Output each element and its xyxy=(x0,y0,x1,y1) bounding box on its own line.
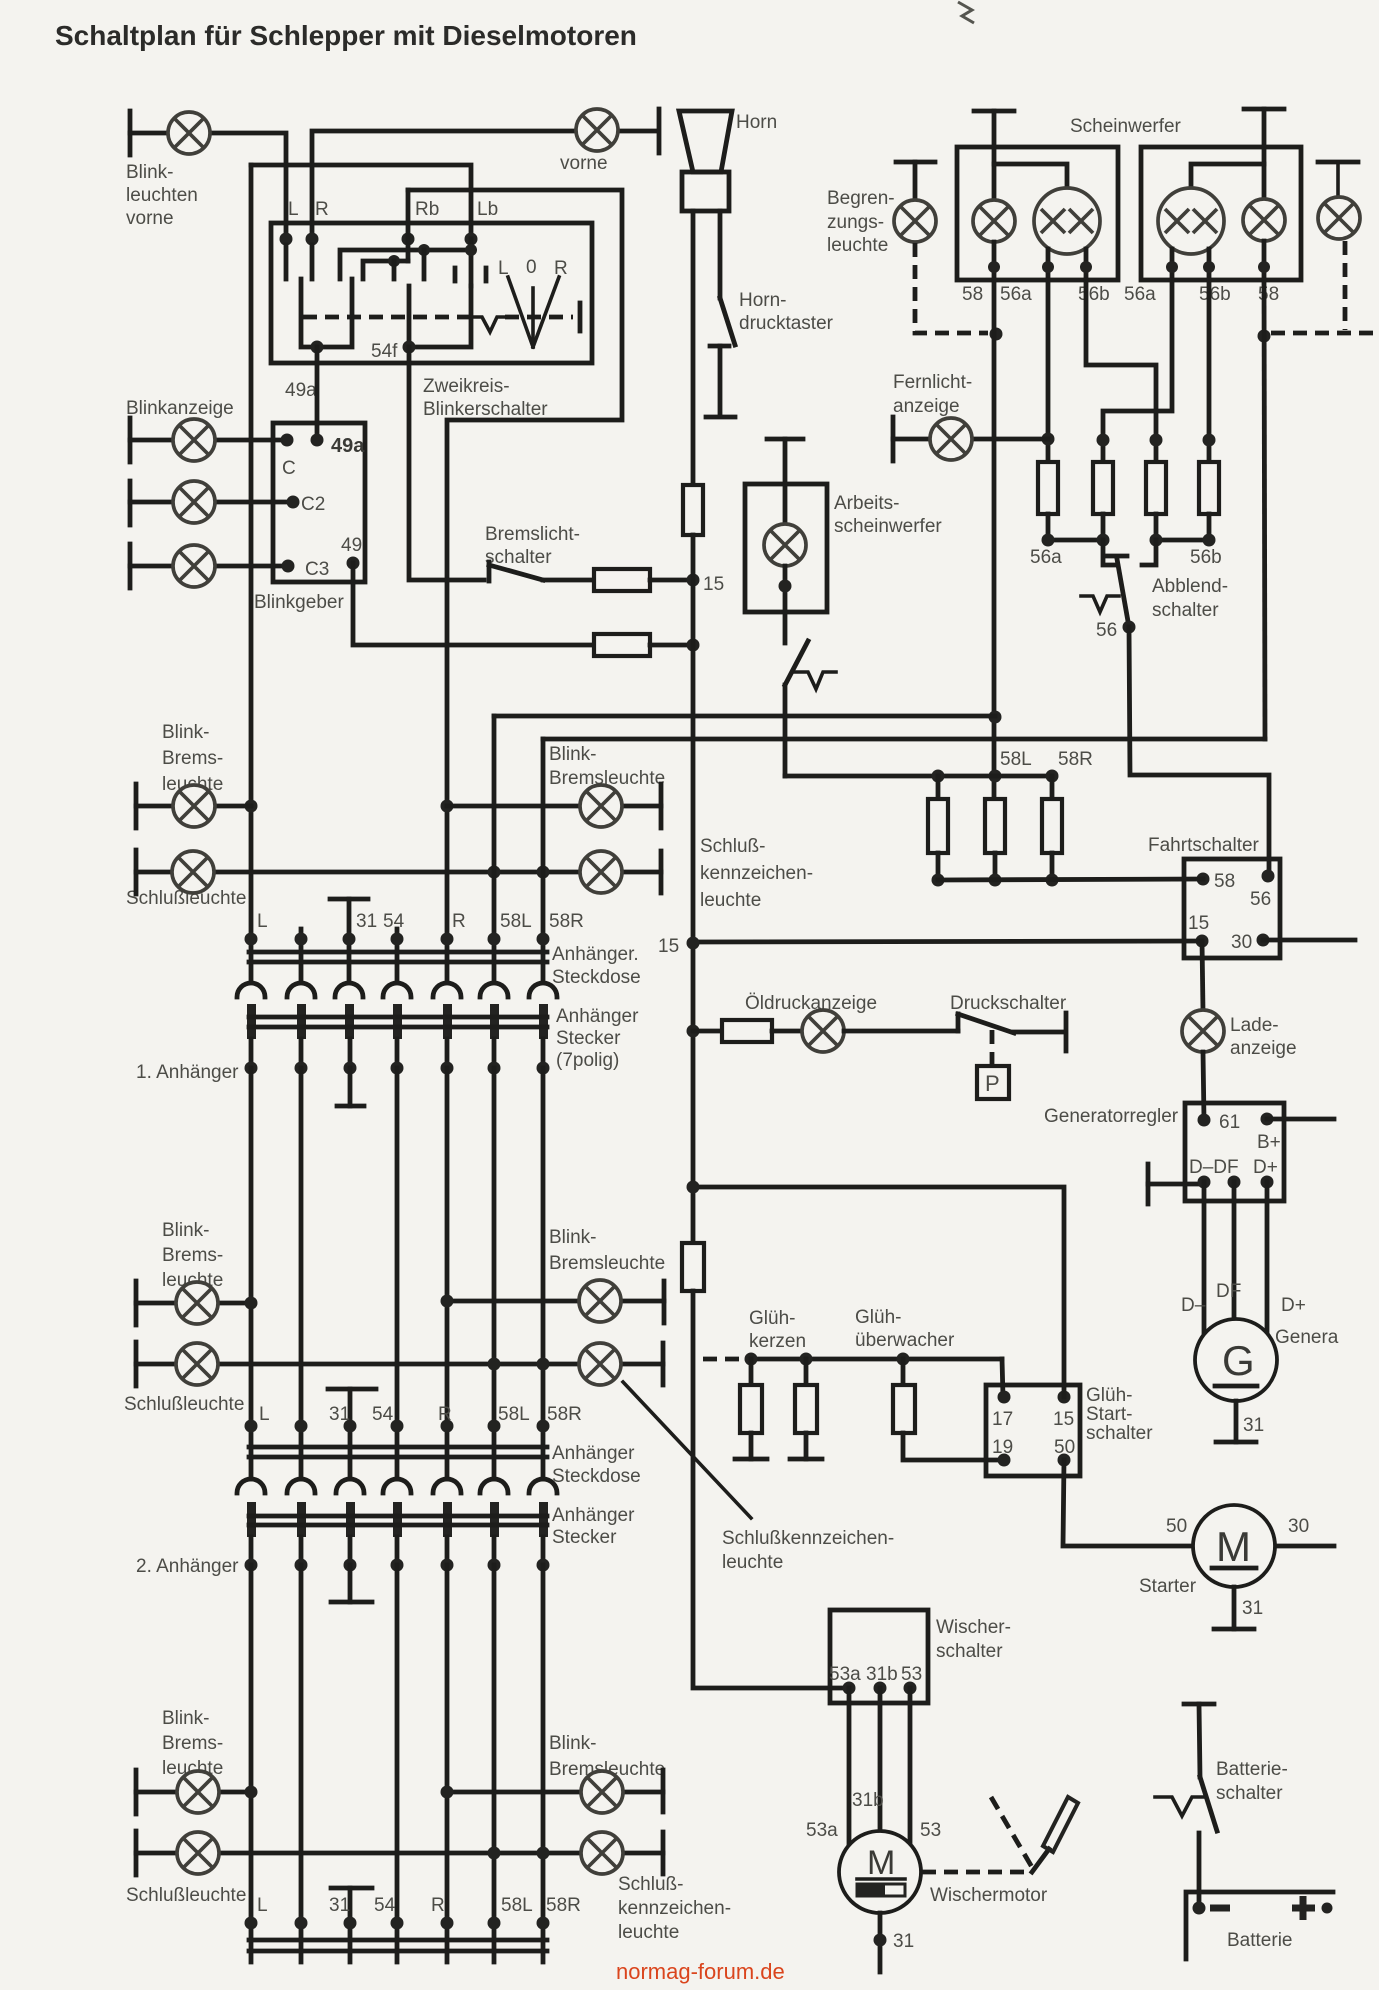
terminal bar Blinkanzeige 3 xyxy=(128,544,133,588)
svg-text:31: 31 xyxy=(1242,1598,1263,1619)
battery plus node xyxy=(1322,1903,1333,1914)
contact stem Horndrucktaster xyxy=(718,346,723,416)
horn symbol body xyxy=(682,172,729,211)
node 58L Schluss 3 xyxy=(488,1847,501,1860)
underline M wischermotor xyxy=(857,1877,905,1881)
stub fuse3 bottom xyxy=(1154,514,1159,540)
node H2 finger xyxy=(388,255,400,267)
Abblendschalter lever xyxy=(1117,559,1129,627)
lamp position light box1 xyxy=(973,200,1015,242)
fuse 58 group 1 xyxy=(928,799,948,853)
stub 31 bottom s1 xyxy=(348,1068,353,1106)
terminal bar Schlusskennzeichenleuchte 3 xyxy=(661,1832,666,1874)
node 58 box2 xyxy=(1258,261,1270,273)
node 17 xyxy=(998,1391,1011,1404)
svg-text:Batterie: Batterie xyxy=(1227,1930,1292,1951)
node 58L Schluss 2 xyxy=(488,1358,501,1371)
wire 49 to fuse to 15 line xyxy=(353,563,594,645)
wire lever to bar xyxy=(1014,1030,1064,1035)
svg-text:Anhänger: Anhänger xyxy=(556,1006,639,1027)
dashed crank diagonal xyxy=(991,1797,1033,1869)
svg-text:30: 30 xyxy=(1288,1516,1309,1537)
stub fuse58-3 top xyxy=(1050,776,1055,799)
wire Blink-Bremsleuchte rechts 1 xyxy=(447,804,661,809)
svg-text:Blink-: Blink- xyxy=(549,744,597,765)
internal contact rail H2 xyxy=(363,261,408,279)
left contact U 49a xyxy=(301,279,352,347)
contact tick 2 xyxy=(484,268,489,281)
wire 30 starter xyxy=(1276,1544,1334,1549)
svg-text:Horn: Horn xyxy=(736,112,777,133)
node 31b xyxy=(874,1682,887,1695)
node 15 Fahrtschalter xyxy=(1196,935,1209,948)
lamp Blink-Bremsleuchte rechts 3 xyxy=(581,1771,623,1813)
fuse 49 circuit xyxy=(594,634,650,656)
svg-text:54f: 54f xyxy=(371,341,398,362)
svg-text:L: L xyxy=(288,199,299,220)
svg-text:58L: 58L xyxy=(498,1404,530,1425)
svg-text:Glüh-: Glüh- xyxy=(749,1308,795,1329)
resistor Gluehkerze 2 xyxy=(795,1385,817,1433)
stub 56a box2 xyxy=(1170,249,1175,280)
node Rb terminal xyxy=(402,233,415,246)
wire Fernlichtanzeige xyxy=(893,437,1048,442)
switch Arbeitsscheinwerfer lever xyxy=(785,641,808,685)
nodes bus2 xyxy=(245,1420,258,1433)
stub Begrenzungsleuchte xyxy=(913,162,918,200)
wire Blink-Bremsleuchte links 3 xyxy=(136,1790,251,1795)
terminal bar 31 bottom s1 xyxy=(337,1104,364,1109)
terminal bar Schlussleuchte links 3 xyxy=(134,1831,139,1875)
svg-text:zungs-: zungs- xyxy=(827,212,884,233)
node L Blink-Brems 3 xyxy=(245,1786,258,1799)
box Scheinwerfer links xyxy=(957,147,1118,280)
node fuse3 top xyxy=(1046,770,1059,783)
stub 56b box1 xyxy=(1084,249,1089,280)
terminal bar kerze 2 xyxy=(790,1457,822,1462)
svg-text:DF: DF xyxy=(1216,1281,1241,1302)
wire main to fuse xyxy=(693,1029,722,1034)
svg-text:G: G xyxy=(1222,1337,1255,1384)
svg-text:L: L xyxy=(259,1404,270,1425)
node C2 xyxy=(287,496,300,509)
wire 58 line left headlamp down xyxy=(992,280,997,799)
wire 54f down xyxy=(409,347,484,580)
crank solid link xyxy=(1032,1849,1049,1872)
svg-text:Begren-: Begren- xyxy=(827,188,895,209)
lamp Schlusskennzeichenleuchte 2 xyxy=(579,1343,621,1385)
lamp Arbeitsscheinwerfer xyxy=(764,524,806,566)
svg-text:leuchte: leuchte xyxy=(722,1552,783,1573)
node 58 Fahrtschalter xyxy=(1197,873,1210,886)
node glow kerze 2 xyxy=(800,1353,813,1366)
svg-text:49a: 49a xyxy=(285,380,317,401)
terminal bar Fernlichtanzeige xyxy=(891,417,896,461)
wire horn feed main 15 line xyxy=(691,211,696,485)
node 58 box1 xyxy=(988,261,1000,273)
node 56a-2 fuse top xyxy=(1097,434,1110,447)
svg-text:C3: C3 xyxy=(305,559,329,580)
Abblendschalter 56b contact jog xyxy=(1142,540,1156,565)
node fuse1 top xyxy=(932,770,945,783)
svg-text:58R: 58R xyxy=(547,1404,582,1425)
node B+ xyxy=(1261,1113,1274,1126)
fuse 56b-1 xyxy=(1146,462,1166,514)
node 53 xyxy=(904,1682,917,1695)
wire DF to generator xyxy=(1232,1182,1237,1320)
lamp Oeldruckanzeige xyxy=(802,1010,844,1052)
right contact U 54f xyxy=(409,286,471,347)
svg-text:15: 15 xyxy=(703,574,724,595)
svg-text:Glüh-: Glüh- xyxy=(855,1307,901,1328)
rail to Fahrtschalter 58 xyxy=(938,879,1203,880)
stub 58 box2 bottom xyxy=(1262,241,1267,280)
svg-text:50: 50 xyxy=(1166,1516,1187,1537)
wire 56 to Fahrtschalter xyxy=(1129,627,1269,876)
svg-text:P: P xyxy=(985,1071,1000,1096)
svg-text:Blink-: Blink- xyxy=(162,1220,210,1241)
svg-text:Schlußkennzeichen-: Schlußkennzeichen- xyxy=(722,1528,894,1549)
node glow ueberwacher xyxy=(897,1353,910,1366)
node glow kerze 1 xyxy=(745,1353,758,1366)
box Zweikreis-Blinkerschalter xyxy=(271,223,592,363)
svg-text:Blink-: Blink- xyxy=(162,722,210,743)
svg-text:58: 58 xyxy=(1258,284,1279,305)
wire Blink-Bremsleuchte links 1 xyxy=(136,804,251,809)
wire Batterieschalter bottom xyxy=(1197,1833,1202,1908)
terminal bar headlamp2 58 xyxy=(1244,107,1284,112)
fuse Oeldruck xyxy=(722,1020,772,1042)
wire 50 to starter xyxy=(1063,1460,1193,1546)
plug lines Stecker 1 xyxy=(249,1015,547,1020)
svg-text:1. Anhänger: 1. Anhänger xyxy=(136,1062,239,1083)
wire 58 into box1 xyxy=(992,111,997,200)
wire glow rail xyxy=(748,1357,1002,1362)
nodes bus1 xyxy=(245,933,258,946)
plug pins row 1 xyxy=(247,1004,548,1039)
svg-text:kennzeichen-: kennzeichen- xyxy=(700,863,813,884)
svg-text:Blinkerschalter: Blinkerschalter xyxy=(423,399,548,420)
svg-text:Arbeits-: Arbeits- xyxy=(834,493,899,514)
wire Arbeitsscheinwerfer bottom xyxy=(783,566,788,643)
wire 58L rail xyxy=(494,714,995,719)
socket arcs row 2 xyxy=(237,1479,557,1493)
svg-text:Brems-: Brems- xyxy=(162,1733,223,1754)
terminal bar Batterieschalter xyxy=(1184,1702,1214,1707)
wire Blink-Bremsleuchte rechts 3 xyxy=(447,1790,663,1795)
svg-text:D–: D– xyxy=(1181,1295,1206,1316)
resistor Gluehkerze 1 xyxy=(740,1385,762,1433)
svg-text:49: 49 xyxy=(341,535,362,556)
box Arbeitsscheinwerfer xyxy=(745,484,827,612)
wire horn switch side xyxy=(718,211,723,298)
svg-text:Steckdose: Steckdose xyxy=(552,967,641,988)
wire lever to fuse xyxy=(543,578,594,583)
svg-text:56b: 56b xyxy=(1190,547,1222,568)
svg-text:Schlußleuchte: Schlußleuchte xyxy=(124,1394,244,1415)
wire front-left blinker to L xyxy=(130,133,286,239)
lamp Blink-Bremsleuchte links 2 xyxy=(176,1282,218,1324)
svg-text:schalter: schalter xyxy=(936,1641,1003,1662)
svg-text:Anhänger.: Anhänger. xyxy=(552,944,639,965)
svg-text:54: 54 xyxy=(383,911,405,932)
wire 58 line right headlamp down xyxy=(1264,280,1265,739)
svg-text:0: 0 xyxy=(526,257,537,278)
svg-text:Schaltplan für Schlepper mit D: Schaltplan für Schlepper mit Dieselmotor… xyxy=(55,20,637,51)
terminal bar Schlussleuchte links 2 xyxy=(134,1342,139,1386)
contact stub R xyxy=(310,245,315,279)
node lamp bottom xyxy=(779,580,792,593)
wire 30 out xyxy=(1263,938,1355,943)
stub right Begrenzungsleuchte xyxy=(1336,162,1340,197)
node 56b-2 fuse top xyxy=(1203,434,1216,447)
svg-text:31: 31 xyxy=(893,1931,914,1952)
svg-text:Stecker: Stecker xyxy=(556,1028,621,1049)
stub 56a box1 xyxy=(1046,249,1051,280)
switch Bremslichtschalter contact bar xyxy=(487,562,492,581)
svg-text:kennzeichen-: kennzeichen- xyxy=(618,1898,731,1919)
wire Lb internal stub xyxy=(469,239,474,286)
Abblendschalter 56a contact jog xyxy=(1103,540,1116,565)
svg-text:C2: C2 xyxy=(301,494,325,515)
terminal bar generator 31 xyxy=(1216,1440,1256,1445)
svg-text:58R: 58R xyxy=(546,1895,581,1916)
svg-text:50: 50 xyxy=(1054,1437,1075,1458)
box Scheinwerfer rechts xyxy=(1141,147,1301,280)
underline M starter xyxy=(1212,1566,1256,1571)
lever Batterieschalter xyxy=(1200,1777,1217,1831)
node DF xyxy=(1228,1176,1241,1189)
svg-text:61: 61 xyxy=(1219,1112,1240,1133)
svg-text:(7polig): (7polig) xyxy=(556,1050,619,1071)
svg-text:normag-forum.de: normag-forum.de xyxy=(616,1959,785,1984)
node L terminal xyxy=(280,233,293,246)
terminal bar right Begrenzungsleuchte xyxy=(1318,160,1358,165)
node 50 gluestart xyxy=(1058,1454,1071,1467)
fuse Bremslicht xyxy=(594,569,650,591)
lamp Fernlichtanzeige xyxy=(930,418,972,460)
node 56b-1 fuse top xyxy=(1150,434,1163,447)
svg-text:Glüh-: Glüh- xyxy=(1086,1385,1132,1406)
svg-text:19: 19 xyxy=(992,1437,1013,1458)
svg-text:Blink-: Blink- xyxy=(162,1708,210,1729)
wire glow rail corner to 17 xyxy=(1002,1359,1003,1397)
lamp Schlusskennzeichenleuchte 3 xyxy=(581,1832,623,1874)
headlamp bilux box1 xyxy=(1034,188,1100,254)
svg-text:53: 53 xyxy=(920,1820,941,1841)
node 15 gluestart xyxy=(1058,1391,1071,1404)
svg-text:Zweikreis-: Zweikreis- xyxy=(423,376,510,397)
svg-text:leuchte: leuchte xyxy=(700,890,761,911)
wire 58R vertical xyxy=(541,739,546,981)
node 56 Fahrtschalter xyxy=(1262,870,1275,883)
terminal bar Horndrucktaster xyxy=(706,415,735,420)
svg-text:Blink-: Blink- xyxy=(549,1227,597,1248)
svg-text:56b: 56b xyxy=(1078,284,1110,305)
box Wischerschalter xyxy=(830,1610,928,1703)
svg-text:Blinkgeber: Blinkgeber xyxy=(254,592,344,613)
nodes 2. Anhaenger xyxy=(245,1559,258,1572)
terminal bar D- xyxy=(1146,1164,1151,1204)
svg-text:Wischer-: Wischer- xyxy=(936,1617,1011,1638)
wire main line to Wischerschalter xyxy=(693,1291,849,1688)
stub 31 bottom s2 xyxy=(348,1565,353,1602)
terminal bar 31 bottom s2 xyxy=(331,1600,372,1605)
wire 58R rail xyxy=(543,737,1265,742)
node 15 Bremslicht xyxy=(687,574,700,587)
plug lines Stecker 2 xyxy=(249,1514,547,1519)
svg-text:anzeige: anzeige xyxy=(893,396,960,417)
svg-text:15: 15 xyxy=(1053,1409,1074,1430)
wire wischermotor 31 xyxy=(878,1913,883,1972)
switch Bremslichtschalter lever xyxy=(489,565,543,580)
node 49 xyxy=(347,557,360,570)
stub 58 box1 bottom xyxy=(992,242,997,280)
svg-text:Abblend-: Abblend- xyxy=(1152,576,1228,597)
svg-text:R: R xyxy=(431,1895,445,1916)
wire Schlussleuchte rail 2 xyxy=(136,1362,663,1367)
wire fuse to 15 xyxy=(650,578,693,583)
svg-text:30: 30 xyxy=(1231,932,1252,953)
node H1 finger xyxy=(418,244,430,256)
svg-text:58L: 58L xyxy=(501,1895,533,1916)
bus lines Steckdose 2 xyxy=(249,1445,547,1450)
wire 15 to Ladeanzeige xyxy=(1202,941,1203,1011)
node dashed to 58 left xyxy=(990,328,1003,341)
lamp Begrenzungsleuchte rechts xyxy=(1318,197,1360,239)
stub Arbeitsscheinwerfer xyxy=(783,439,788,525)
stub ueberwacher xyxy=(901,1359,906,1385)
wire 56b-2 down xyxy=(1207,280,1212,462)
svg-text:L: L xyxy=(498,258,509,279)
Druckschalter lever xyxy=(958,1014,1014,1033)
svg-text:R: R xyxy=(315,199,329,220)
node 58-1 / switch rail xyxy=(989,770,1002,783)
box Fahrtschalter xyxy=(1184,859,1280,958)
svg-text:Brems-: Brems- xyxy=(162,1245,223,1266)
contact stub L xyxy=(284,245,289,279)
fuse 56a-2 xyxy=(1093,462,1113,514)
svg-text:54: 54 xyxy=(374,1895,396,1916)
lamp Blink-Bremsleuchte links 3 xyxy=(177,1771,219,1813)
node 49a tap xyxy=(311,341,324,354)
svg-text:M: M xyxy=(1216,1523,1251,1570)
node battery minus xyxy=(1193,1902,1206,1915)
terminal bar Blink-Bremsleuchte links 2 xyxy=(134,1281,139,1325)
terminal bar Blinkanzeige 2 xyxy=(128,481,133,525)
svg-text:54: 54 xyxy=(372,1404,394,1425)
socket arcs row 1 xyxy=(237,983,557,997)
bus lines Steckdose 1 xyxy=(249,950,547,955)
svg-text:R: R xyxy=(554,258,568,279)
dashed linkage right part xyxy=(505,315,573,320)
stub kerze 1 xyxy=(749,1359,754,1385)
dashed wire Begrenzungsleuchte to 58 xyxy=(915,243,988,333)
svg-text:53a: 53a xyxy=(829,1664,861,1685)
lamp Blinkanzeige 2 xyxy=(173,481,215,523)
node 61 xyxy=(1198,1114,1211,1127)
wire 31b to motor xyxy=(878,1688,883,1831)
wire 53a to motor xyxy=(847,1688,852,1846)
box Generatorregler xyxy=(1185,1103,1284,1201)
terminal bar starter 31 xyxy=(1214,1627,1254,1632)
svg-text:Start-: Start- xyxy=(1086,1404,1132,1425)
wire box2 to big lamp xyxy=(1191,164,1264,188)
bus lines 3 xyxy=(249,1938,547,1943)
scan smudge top xyxy=(958,2,974,23)
terminal bar Blink-Bremsleuchte rechts 2 xyxy=(662,1281,667,1323)
svg-text:Anhänger: Anhänger xyxy=(552,1443,635,1464)
svg-text:C: C xyxy=(282,458,296,479)
svg-text:56a: 56a xyxy=(1000,284,1032,305)
fuse main line lower xyxy=(682,1243,704,1291)
svg-text:Schluß-: Schluß- xyxy=(700,836,765,857)
wires pins to nodes 1 xyxy=(251,1039,543,1068)
underline G xyxy=(1215,1384,1257,1389)
svg-text:58L: 58L xyxy=(500,911,532,932)
dashed link to P xyxy=(990,1030,995,1066)
wire L bus vertical xyxy=(249,165,254,939)
svg-text:15: 15 xyxy=(658,936,679,957)
wire Blinkanzeige 2 to C2 xyxy=(130,500,293,505)
lamp Ladeanzeige xyxy=(1182,1010,1224,1052)
lamp Schlussleuchte links 3 xyxy=(177,1832,219,1874)
stub conductor 2 xyxy=(299,929,304,981)
wire 31 s2 xyxy=(348,1389,353,1479)
node Lb terminal xyxy=(465,233,478,246)
node 56b box2 xyxy=(1203,261,1215,273)
crank handle xyxy=(1043,1797,1078,1852)
wire ueberwacher to 19 xyxy=(903,1433,1004,1460)
terminal bar Schlusskennzeichenleuchte 1 xyxy=(659,851,664,893)
svg-text:Lb: Lb xyxy=(477,199,498,220)
terminal bar kerze 1 xyxy=(735,1457,767,1462)
wire 15 feed xyxy=(693,941,1202,942)
wire 53 to motor xyxy=(908,1688,913,1846)
nodes bus3 xyxy=(245,1917,258,1930)
svg-text:56: 56 xyxy=(1096,620,1117,641)
terminal bar front-right blinker xyxy=(657,109,662,153)
svg-text:R: R xyxy=(452,911,466,932)
node 56a box1 xyxy=(1042,261,1054,273)
svg-text:Öldruckanzeige: Öldruckanzeige xyxy=(745,993,877,1014)
svg-text:56a: 56a xyxy=(1124,284,1156,305)
svg-text:anzeige: anzeige xyxy=(1230,1038,1297,1059)
wire R vertical lower xyxy=(445,939,450,981)
svg-text:L: L xyxy=(257,911,268,932)
nodes fuse bottoms xyxy=(932,874,945,887)
battery minus sign xyxy=(1210,1905,1230,1912)
Druckschalter contact tick xyxy=(956,1014,961,1031)
node D- xyxy=(1198,1176,1211,1189)
lamp Blinkleuchte vorne links xyxy=(168,112,210,154)
node main line gluestart xyxy=(687,1181,700,1194)
stub fuse1 bottom xyxy=(1046,514,1051,540)
node 54f tap xyxy=(403,341,416,354)
wire Blink-Bremsleuchte links 2 xyxy=(136,1301,251,1306)
node L / blink-brems left xyxy=(245,800,258,813)
linkage end bar xyxy=(578,303,583,331)
wire Schlussleuchte rail 1 xyxy=(136,870,661,875)
wire switch to fuse rail xyxy=(783,685,788,776)
generator G circle xyxy=(1195,1319,1277,1401)
wire 58L vertical xyxy=(492,716,497,981)
terminal bar 31 top s2 xyxy=(328,1387,376,1392)
svg-text:schalter: schalter xyxy=(1152,600,1219,621)
svg-text:leuchte: leuchte xyxy=(618,1922,679,1943)
wire main 15 line xyxy=(691,535,696,1243)
svg-text:Lade-: Lade- xyxy=(1230,1015,1279,1036)
